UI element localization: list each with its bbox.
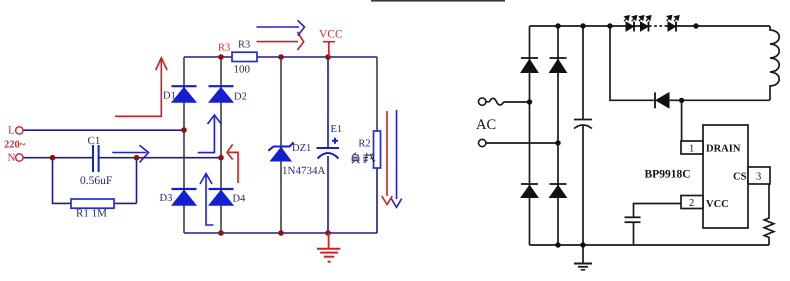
svg-text:VCC: VCC xyxy=(319,29,343,41)
svg-text:L: L xyxy=(8,124,15,136)
svg-text:AC: AC xyxy=(476,117,496,133)
svg-text:100: 100 xyxy=(234,64,251,76)
svg-text:N: N xyxy=(8,152,16,164)
svg-text:D3: D3 xyxy=(160,193,173,204)
svg-text:E1: E1 xyxy=(331,124,343,135)
svg-text:DRAIN: DRAIN xyxy=(706,144,741,155)
svg-text:R3: R3 xyxy=(238,40,250,51)
svg-text:1N4734A: 1N4734A xyxy=(282,165,325,177)
svg-text:DZ1: DZ1 xyxy=(292,143,311,154)
svg-text:C1: C1 xyxy=(88,135,101,147)
svg-text:BP9918C: BP9918C xyxy=(645,169,691,181)
svg-text:1: 1 xyxy=(689,143,694,154)
svg-text:CS: CS xyxy=(733,172,747,183)
svg-text:D1: D1 xyxy=(163,91,176,102)
svg-text:3: 3 xyxy=(756,171,761,182)
svg-text:R1 1M: R1 1M xyxy=(76,208,107,220)
svg-text:0.56uF: 0.56uF xyxy=(80,175,112,187)
svg-text:D4: D4 xyxy=(233,194,247,205)
svg-text:R2: R2 xyxy=(358,138,370,149)
svg-text:2: 2 xyxy=(689,198,694,209)
svg-text:R3: R3 xyxy=(218,43,230,54)
svg-text:220~: 220~ xyxy=(4,139,26,150)
svg-text:VCC: VCC xyxy=(706,199,729,210)
svg-text:D2: D2 xyxy=(234,92,247,103)
